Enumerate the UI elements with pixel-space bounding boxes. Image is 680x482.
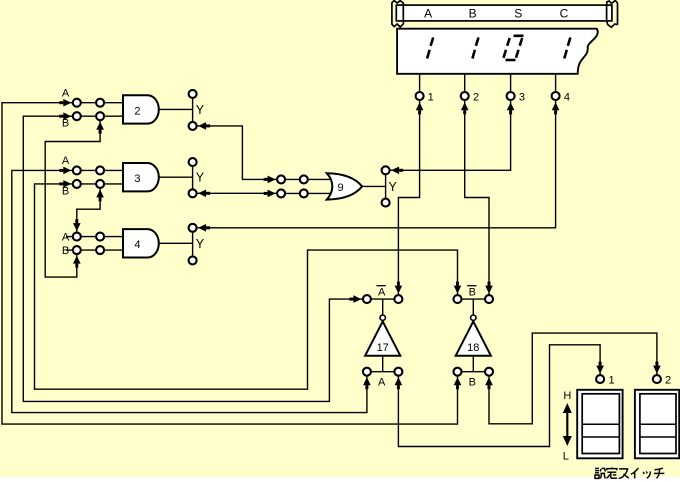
svg-text:L: L bbox=[563, 450, 569, 462]
svg-text:B: B bbox=[62, 245, 69, 257]
svg-text:9: 9 bbox=[337, 182, 343, 194]
svg-text:C: C bbox=[560, 6, 569, 20]
svg-text:18: 18 bbox=[467, 342, 479, 354]
svg-text:B: B bbox=[469, 286, 476, 298]
svg-text:A: A bbox=[62, 155, 70, 167]
svg-text:B: B bbox=[469, 6, 477, 20]
svg-text:Y: Y bbox=[196, 171, 205, 185]
svg-text:A: A bbox=[424, 6, 432, 20]
svg-text:H: H bbox=[563, 390, 571, 402]
svg-text:B: B bbox=[469, 376, 476, 388]
svg-text:1: 1 bbox=[608, 374, 614, 386]
svg-text:Y: Y bbox=[196, 237, 205, 251]
svg-text:B: B bbox=[62, 118, 69, 130]
svg-text:A: A bbox=[62, 231, 70, 243]
svg-text:S: S bbox=[514, 6, 522, 20]
svg-text:4: 4 bbox=[134, 239, 140, 251]
svg-text:B: B bbox=[62, 185, 69, 197]
svg-text:Y: Y bbox=[389, 180, 398, 194]
svg-text:2: 2 bbox=[665, 374, 671, 386]
svg-text:17: 17 bbox=[377, 342, 389, 354]
svg-text:2: 2 bbox=[134, 105, 140, 117]
svg-text:Y: Y bbox=[196, 103, 205, 117]
svg-text:3: 3 bbox=[519, 91, 525, 103]
svg-text:A: A bbox=[378, 286, 386, 298]
svg-text:3: 3 bbox=[134, 173, 140, 185]
svg-text:A: A bbox=[62, 87, 70, 99]
svg-text:A: A bbox=[378, 376, 386, 388]
svg-text:1: 1 bbox=[428, 91, 434, 103]
svg-text:4: 4 bbox=[564, 91, 570, 103]
svg-text:2: 2 bbox=[473, 91, 479, 103]
